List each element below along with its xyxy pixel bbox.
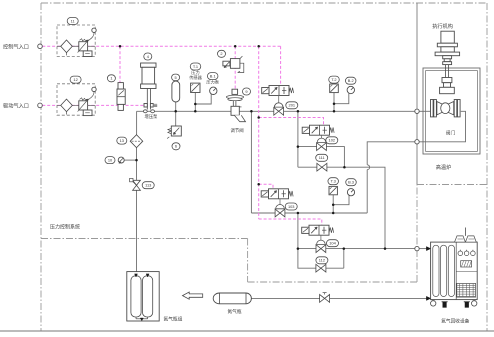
svg-text:103: 103 — [288, 204, 295, 209]
svg-text:2: 2 — [220, 51, 222, 56]
svg-text:102: 102 — [329, 138, 336, 143]
svg-text:传感器: 传感器 — [189, 74, 202, 81]
svg-text:T.2: T.2 — [331, 77, 336, 82]
svg-text:T.1: T.1 — [193, 64, 198, 69]
svg-text:压力表: 压力表 — [206, 78, 219, 85]
svg-text:氮气瓶: 氮气瓶 — [227, 308, 241, 315]
svg-text:12: 12 — [73, 77, 77, 82]
svg-text:13: 13 — [120, 138, 124, 143]
svg-text:113: 113 — [145, 183, 151, 188]
svg-text:6: 6 — [175, 144, 177, 149]
svg-text:控制气入口: 控制气入口 — [3, 42, 29, 50]
svg-text:B.3: B.3 — [348, 180, 354, 185]
svg-text:调节阀: 调节阀 — [231, 127, 244, 134]
svg-text:112: 112 — [319, 258, 325, 263]
svg-text:执行机构: 执行机构 — [432, 22, 453, 30]
svg-text:11: 11 — [71, 18, 75, 23]
svg-text:1: 1 — [110, 76, 112, 81]
svg-text:201: 201 — [289, 103, 296, 108]
svg-text:5: 5 — [175, 75, 177, 80]
svg-text:驱动气入口: 驱动气入口 — [3, 101, 29, 109]
svg-text:104: 104 — [329, 241, 336, 246]
svg-text:阀门: 阀门 — [446, 130, 456, 137]
svg-text:增压泵: 增压泵 — [144, 113, 158, 120]
svg-text:111: 111 — [319, 155, 325, 160]
svg-text:压力控制系统: 压力控制系统 — [50, 224, 80, 231]
svg-text:B.1: B.1 — [210, 74, 216, 79]
svg-text:高温炉: 高温炉 — [436, 163, 452, 171]
svg-text:9: 9 — [245, 89, 247, 94]
svg-text:T.3: T.3 — [331, 179, 336, 184]
svg-text:B.2: B.2 — [348, 78, 354, 83]
svg-text:氮气瓶组: 氮气瓶组 — [164, 316, 183, 323]
svg-text:氮气回收设备: 氮气回收设备 — [441, 317, 469, 324]
